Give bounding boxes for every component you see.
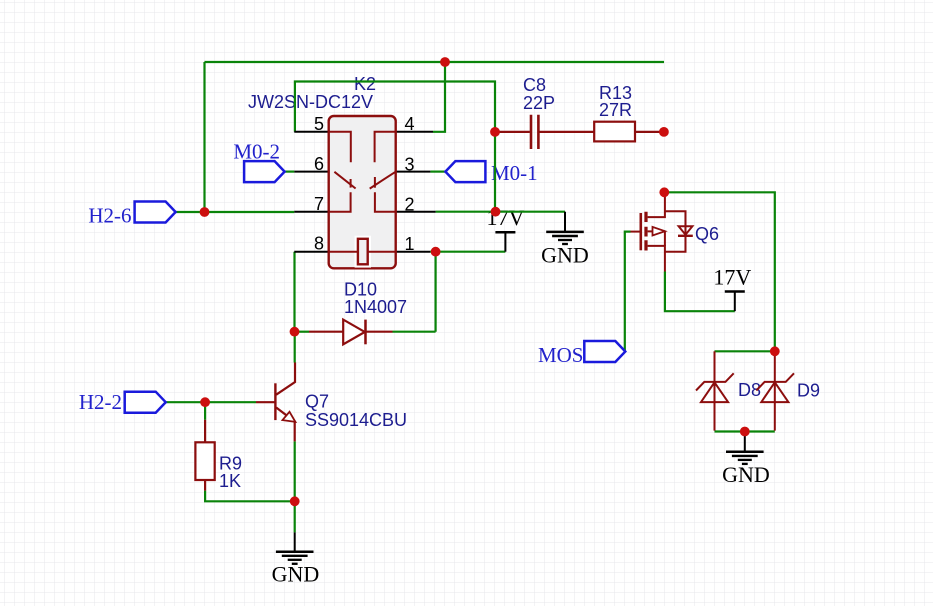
- D8 cathode bar with bent ends: [696, 373, 734, 390]
- Q6 drain connection: [648, 192, 665, 217]
- wire R9 bottom to emitter node: [205, 491, 295, 502]
- svg-text:27R: 27R: [599, 100, 632, 120]
- D9 cathode bar with bent ends: [756, 373, 794, 390]
- svg-text:JW2SN-DC12V: JW2SN-DC12V: [248, 92, 373, 112]
- wire pin 2 to GND stem: [436, 211, 565, 213]
- capacitor C8 plates: [531, 115, 538, 149]
- label R9 value 1K: [219, 471, 241, 491]
- wire Q6 drain to right rail down to D9: [664, 192, 775, 351]
- Q6 channel dashes: [644, 212, 647, 251]
- svg-text:K2: K2: [354, 74, 376, 94]
- svg-text:22P: 22P: [523, 93, 555, 113]
- Q6 body diode triangle: [679, 226, 693, 234]
- resistor R9 bottom lead: [204, 480, 206, 491]
- Q7 base bar: [274, 383, 276, 420]
- relay pin 7 lead: [294, 211, 328, 213]
- D9 triangle: [761, 382, 788, 402]
- net label GND below D8 D9: [722, 462, 770, 487]
- Q7 emitter: [276, 408, 295, 442]
- Q6 source connection: [648, 246, 665, 272]
- pin number 7: [314, 194, 324, 214]
- svg-text:GND: GND: [541, 243, 589, 268]
- D8 cathode lead through body: [714, 351, 716, 430]
- pin number 1: [405, 234, 415, 254]
- junction H2-6 node: [200, 207, 210, 217]
- net label GND at pin2: [541, 243, 589, 268]
- Q7 emitter arrow: [283, 412, 296, 422]
- wire top rail: [205, 61, 665, 63]
- svg-text:D9: D9: [797, 381, 820, 401]
- capacitor C8 left lead: [495, 131, 530, 133]
- pin number 8: [314, 234, 324, 254]
- relay pin 5 lead: [294, 131, 328, 133]
- wire pin 8 down to D10 anode node: [293, 252, 295, 332]
- svg-text:GND: GND: [722, 462, 770, 487]
- relay K2 right fixed contact bottom: [375, 192, 396, 212]
- net label H2-6: [88, 204, 131, 228]
- wire Q7 collector up to node: [294, 332, 296, 363]
- svg-text:1N4007: 1N4007: [344, 297, 407, 317]
- svg-text:Q7: Q7: [305, 392, 329, 412]
- transistor Q7: [256, 363, 295, 442]
- label C8 value 22P: [523, 93, 555, 113]
- zener diode D8: [696, 351, 734, 430]
- wire pin 5 over relay to C8 branch: [295, 82, 495, 132]
- label R9 designator: [219, 454, 242, 474]
- relay K2 body: [329, 116, 396, 268]
- relay pin 2 lead: [396, 211, 436, 213]
- wire left vertical to H2-6: [203, 62, 205, 212]
- relay K2 left fixed contact bottom: [329, 192, 351, 212]
- relay K2 right fixed contact top: [375, 132, 396, 163]
- svg-text:GND: GND: [272, 562, 320, 587]
- relay pin 3 lead: [396, 171, 431, 173]
- relay pin 8 lead: [294, 251, 328, 253]
- ground symbol below Q7: [276, 552, 314, 564]
- diode D10 cathode bar: [364, 320, 367, 345]
- net flag H2-6: [135, 202, 176, 223]
- net flag M0-1: [445, 161, 485, 182]
- wire Q7 emitter down to GND stem: [294, 441, 296, 532]
- net flag M0-2: [244, 161, 285, 182]
- junction pin2 net node: [491, 207, 501, 217]
- D9 cathode lead through body: [774, 351, 776, 430]
- svg-text:SS9014CBU: SS9014CBU: [305, 410, 407, 430]
- svg-text:17V: 17V: [713, 264, 751, 289]
- label Q7 designator: [305, 392, 329, 412]
- label K2 value JW2SN-DC12V: [248, 92, 373, 112]
- net flag MOS: [584, 341, 625, 362]
- svg-text:M0-1: M0-1: [491, 161, 538, 185]
- relay K2 right switch arm: [370, 172, 396, 189]
- junction Q6 drain node: [659, 187, 669, 197]
- capacitor C8 right lead: [538, 131, 594, 133]
- svg-text:H2-2: H2-2: [79, 390, 122, 414]
- mosfet Q6: [631, 192, 693, 271]
- junction C8 left node: [490, 127, 500, 137]
- relay pin 1 lead: [396, 251, 430, 253]
- junction R13 right node: [659, 127, 669, 137]
- resistor R13 body: [594, 122, 635, 142]
- wire C8 branch down to pin 2 net: [494, 132, 496, 212]
- zener diode D9: [756, 351, 794, 430]
- net label 17V at Q6 source: [713, 264, 751, 289]
- wire H2-2 to Q7 base: [166, 401, 256, 403]
- wire MOS flag up to Q6 gate: [625, 232, 631, 352]
- wire Q6 source to 17V stem: [665, 272, 735, 312]
- label Q6 designator: [695, 224, 719, 244]
- net label GND below Q7: [272, 562, 320, 587]
- Q6 body to source: [664, 231, 666, 246]
- wire D10 cathode to corner: [393, 331, 436, 333]
- junction D10 anode node: [290, 327, 300, 337]
- label C8 designator: [523, 75, 546, 95]
- Q6 body arrow: [648, 227, 665, 236]
- net label MOS: [538, 343, 584, 367]
- label R13 designator: [599, 83, 632, 103]
- wire H2-6 to relay pin 7: [176, 211, 295, 213]
- svg-text:C8: C8: [523, 75, 546, 95]
- pin number 4: [405, 114, 415, 134]
- svg-text:1K: 1K: [219, 471, 241, 491]
- diode D10 anode lead: [309, 331, 343, 333]
- gnd stem at pin 2: [564, 212, 566, 232]
- Q6 gate lead: [631, 231, 640, 233]
- diode D10 cathode lead: [366, 331, 393, 333]
- pin number 2: [405, 195, 415, 215]
- label D9 designator: [797, 381, 820, 401]
- gnd stem below Q7: [294, 532, 296, 551]
- junction D8 D9 bottom node: [740, 427, 750, 437]
- relay K2 left contact tick: [350, 179, 352, 188]
- junction emitter node: [290, 496, 300, 506]
- pin number 6: [314, 154, 324, 174]
- junction top rail / pin4 drop: [440, 57, 450, 67]
- power symbol 17V at pin 1: [495, 231, 515, 233]
- label R13 value 27R: [599, 100, 632, 120]
- Q6 body diode branch top: [665, 211, 686, 236]
- relay pin 4 lead: [396, 131, 433, 133]
- junction pin1 net node: [431, 247, 441, 257]
- relay K2 coil: [329, 237, 396, 267]
- power symbol 17V at Q6 source: [725, 291, 745, 293]
- wire M0-2 stub to pin 6: [284, 171, 294, 173]
- junction D8 D9 top node: [770, 346, 780, 356]
- ground symbol below D8 D9: [726, 452, 764, 464]
- Q6 gate bar: [639, 213, 642, 250]
- relay K2 right contact tick: [374, 177, 376, 188]
- Q7 collector: [276, 363, 295, 395]
- wire pin 1 down to D10 cathode: [435, 252, 437, 332]
- label D10 value 1N4007: [344, 297, 407, 317]
- relay K2 left fixed contact top: [329, 132, 351, 163]
- svg-text:8: 8: [314, 234, 324, 254]
- net label H2-2: [79, 390, 122, 414]
- svg-text:MOS: MOS: [538, 343, 584, 367]
- net label 17V at pin1: [487, 205, 525, 230]
- label Q7 value SS9014CBU: [305, 410, 407, 430]
- resistor R13 right lead: [635, 131, 664, 133]
- pin number 5: [314, 114, 324, 134]
- label D8 designator: [738, 380, 761, 400]
- power stem 17V at Q6 source: [734, 292, 736, 312]
- wire D8 top rail: [715, 350, 775, 352]
- pin number 3: [405, 155, 415, 175]
- resistor R9 top lead: [204, 420, 206, 443]
- net label M0-1: [491, 161, 538, 185]
- relay K2 left switch arm: [334, 172, 355, 189]
- wire pin 1 to 17V stem: [430, 251, 505, 253]
- gnd stem below D8 D9: [744, 432, 746, 452]
- wire pin 3 stub to M0-1: [430, 171, 445, 173]
- svg-text:H2-6: H2-6: [88, 204, 131, 228]
- wire D9 bottom to GND node: [715, 430, 775, 432]
- wire node to R9 top: [204, 402, 206, 420]
- resistor R9 body: [195, 442, 214, 480]
- wire D10 anode stub: [294, 331, 309, 333]
- Q7 base lead: [256, 401, 275, 403]
- Q6 body diode bar: [678, 235, 693, 237]
- junction H2-2 node: [200, 397, 210, 407]
- power stem 17V at pin 1: [504, 232, 506, 252]
- D8 triangle: [701, 382, 728, 402]
- net flag H2-2: [125, 392, 166, 413]
- label D10 designator: [344, 280, 377, 300]
- net label M0-2: [233, 140, 280, 164]
- Q6 body diode branch bottom: [665, 236, 686, 252]
- wire top rail drop to pin 4: [433, 62, 445, 132]
- label K2 designator: [354, 74, 376, 94]
- diode D10 triangle: [343, 320, 365, 345]
- relay pin 6 lead: [294, 171, 328, 173]
- svg-text:Q6: Q6: [695, 224, 719, 244]
- ground symbol at pin 2: [546, 232, 584, 244]
